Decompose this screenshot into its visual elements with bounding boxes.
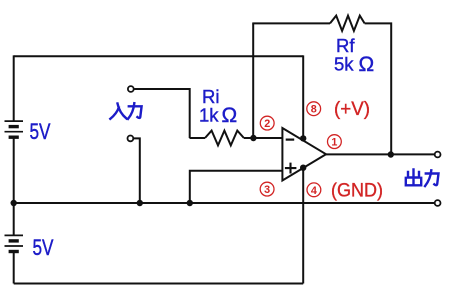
node: non-inverting to ground junction: [187, 200, 193, 206]
wire: pin8 drop from top rail: [302, 55, 304, 140]
wire: top supply rail (+V): [14, 55, 304, 57]
svg-text:Ω: Ω: [222, 104, 238, 127]
node: pin2 junction: [250, 135, 256, 141]
pin label 1: [328, 135, 342, 149]
label: 入力 (input): [110, 103, 141, 119]
svg-text:4: 4: [311, 185, 317, 197]
op-amp U1: [282, 128, 326, 181]
wire: non-inverting input: [190, 171, 283, 203]
wire: Ri left lead: [190, 137, 206, 139]
svg-text:5V: 5V: [33, 235, 54, 260]
svg-text:5k: 5k: [334, 54, 354, 75]
wire: left rail upper segment: [13, 55, 15, 121]
pin label 3: [260, 182, 274, 196]
wire: Rf right lead and drop to output node: [365, 23, 392, 154]
terminal: input upper: [128, 86, 134, 92]
node: ground-left junction: [11, 200, 17, 206]
pin label 4: [307, 183, 321, 197]
pin label 8: [307, 102, 321, 116]
node: output junction: [388, 151, 394, 157]
label: 出力 (output): [406, 170, 439, 187]
wire: input lower lead: [134, 138, 140, 203]
svg-text:5V: 5V: [30, 119, 51, 144]
wire: pin2 vertical to feedback: [252, 23, 254, 138]
wire: op-amp output: [325, 153, 434, 155]
node: input lower to ground junction: [137, 200, 143, 206]
resistor Ri 1kΩ: [205, 131, 244, 146]
wire: bottom rail to pin4: [14, 283, 304, 285]
svg-text:(+V): (+V): [334, 99, 370, 120]
terminal: input lower: [127, 136, 133, 142]
wire: Ri to op-amp inverting input: [244, 137, 283, 139]
wire: pin4 drop to bottom rail: [302, 168, 304, 284]
terminal: output upper: [435, 152, 441, 158]
battery B1 5V: [5, 121, 24, 137]
svg-text:(GND): (GND): [331, 181, 383, 202]
wire: ground rail: [14, 202, 435, 204]
svg-text:1k: 1k: [199, 105, 219, 126]
terminal: output lower: [435, 200, 441, 206]
battery B2 5V: [5, 235, 24, 251]
wire: Rf left lead: [252, 22, 330, 24]
node: pin8 junction on op-amp: [300, 135, 306, 141]
wire: input upper lead: [134, 89, 190, 138]
wire: left rail middle segment: [13, 138, 15, 235]
wire: left rail lower segment: [13, 252, 15, 283]
svg-text:1: 1: [331, 137, 337, 149]
svg-text:3: 3: [264, 184, 270, 196]
svg-text:2: 2: [264, 118, 270, 130]
pin label 2: [260, 116, 274, 130]
svg-text:Ω: Ω: [359, 53, 375, 76]
node: pin4 junction on op-amp: [300, 165, 306, 171]
svg-text:8: 8: [311, 104, 317, 116]
resistor Rf 5kΩ: [330, 16, 365, 31]
